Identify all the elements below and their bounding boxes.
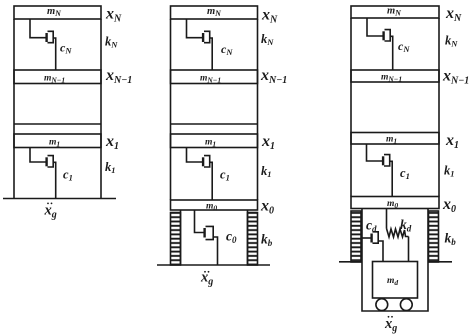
damper c_d (building 3): output rod down to mass m_d <box>378 241 383 262</box>
svg-text:c1: c1 <box>63 168 73 183</box>
svg-text:cN: cN <box>60 41 72 56</box>
damper c_N (building 3): hanger wire <box>367 18 383 36</box>
mass m_N-1 floor bar (building 2) <box>171 70 258 84</box>
svg-text:mN−1: mN−1 <box>200 74 221 85</box>
damper c_1 (building 2): output rod down to base floor <box>210 162 213 200</box>
intermediate floor line (building 2) <box>171 123 258 125</box>
svg-text:x1: x1 <box>105 133 119 152</box>
damper c_1 (building 3): piston <box>382 156 384 165</box>
isolation bearing right k_b (building 3) <box>429 211 439 262</box>
damper c_1 (building 1): output rod down to ground <box>53 162 56 198</box>
spring k_d (building 3): rod down to mass m_d <box>408 237 410 262</box>
svg-text:c1: c1 <box>400 166 410 181</box>
svg-text:m0: m0 <box>206 202 217 213</box>
damper c_N (building 2): output rod down to floor below <box>210 38 213 70</box>
svg-text:c1: c1 <box>220 168 230 183</box>
svg-text:mN−1: mN−1 <box>381 73 402 84</box>
damper c_d (building 3): rod from wall <box>362 237 371 239</box>
damper c_N (building 3): output rod down to floor below <box>390 36 393 70</box>
svg-text:md: md <box>387 276 398 287</box>
svg-text:m0: m0 <box>387 199 398 210</box>
BUILDING1 fixed-base frame <box>3 6 132 221</box>
svg-text:xN: xN <box>261 7 278 26</box>
damper c_N (building 3): piston <box>382 31 384 40</box>
mass m_1 floor bar (building 2) <box>171 134 258 148</box>
isolation bearing right k_b (building 2) <box>248 213 258 266</box>
label x..g ground acceleration (building 2) <box>200 270 213 288</box>
svg-text:kb: kb <box>261 232 273 249</box>
svg-text:mN: mN <box>387 6 402 18</box>
damper c_1 (building 3): hanger wire <box>367 144 383 161</box>
mass m_0 base slab bar (building 3) <box>351 197 439 209</box>
damper c_d (building 3): piston <box>370 234 372 243</box>
isolation bearing left k_b (building 3) <box>351 211 361 262</box>
damper c_N (building 1): output rod down to floor below <box>53 38 56 70</box>
ground line (building 2) <box>157 264 270 266</box>
right wall (building 3) <box>438 18 440 197</box>
BUILDING3 base isolation with tuned mass damper <box>339 5 469 334</box>
svg-text:kN: kN <box>105 35 118 50</box>
ground stub left (building 3) <box>339 261 362 263</box>
svg-text:xg: xg <box>44 203 57 221</box>
svg-text:x1: x1 <box>261 133 275 152</box>
damper c_1 (building 1): cylinder cup <box>48 156 54 167</box>
ground line (building 1) <box>3 198 116 200</box>
damper c_N (building 1): hanger wire <box>30 19 46 38</box>
isolation bearing left k_b (building 2) <box>171 213 181 266</box>
ground stub right (building 3) <box>428 261 452 263</box>
BUILDING2 base-isolated frame <box>157 6 287 288</box>
svg-text:mN: mN <box>207 6 222 18</box>
svg-text:kN: kN <box>445 34 458 49</box>
mass m_1 floor bar (building 3) <box>351 133 439 145</box>
damper c_1 (building 2): hanger wire <box>187 148 203 163</box>
svg-text:mN−1: mN−1 <box>44 74 65 85</box>
svg-text:xN: xN <box>105 6 122 25</box>
damper c_N (building 2): hanger wire <box>187 19 203 38</box>
damper c_N (building 1): piston <box>45 33 47 42</box>
svg-text:m1: m1 <box>49 138 60 149</box>
damper c_1 (building 1): piston <box>45 157 47 166</box>
spring k_d (building 3): hanger wire <box>386 209 388 229</box>
damper c_0 (building 2): hanger wire <box>195 210 204 233</box>
svg-text:xN−1: xN−1 <box>260 67 287 86</box>
TMD wheel right (building 3) <box>400 299 412 311</box>
TMD wheel left (building 3) <box>376 299 388 311</box>
svg-text:xN: xN <box>445 5 462 24</box>
damper c_N (building 3): cylinder cup <box>385 30 391 41</box>
svg-text:m1: m1 <box>386 135 397 146</box>
TMD mass m_d box (building 3) <box>373 262 418 299</box>
left wall (building 2) <box>170 19 172 200</box>
mass m_1 floor bar (building 1) <box>14 134 101 148</box>
svg-text:xN−1: xN−1 <box>105 67 132 86</box>
damper c_1 (building 2): cylinder cup <box>204 156 210 167</box>
inner base wall right (building 2) <box>247 210 249 265</box>
svg-text:mN: mN <box>47 6 62 18</box>
svg-text:k1: k1 <box>105 160 116 175</box>
svg-text:kN: kN <box>261 32 274 47</box>
damper c_1 (building 2): piston <box>202 157 204 166</box>
svg-text:kd: kd <box>400 217 412 234</box>
mass m_N floor bar (building 1) <box>14 6 101 19</box>
right wall (building 1) <box>100 19 102 199</box>
mass m_0 base slab bar (building 2) <box>171 200 258 210</box>
damper c_1 (building 3): output rod down to base floor <box>390 161 393 196</box>
svg-text:xg: xg <box>384 316 397 334</box>
damper c_d (building 3): cylinder cup <box>373 232 379 243</box>
mass m_N-1 floor bar (building 1) <box>14 70 101 84</box>
damper c_1 (building 3): cylinder cup <box>384 155 390 166</box>
svg-text:x0: x0 <box>442 196 456 215</box>
label x..g ground acceleration (building 1) <box>44 203 57 221</box>
svg-text:x1: x1 <box>445 132 459 151</box>
svg-text:xg: xg <box>200 270 213 288</box>
damper c_0 (building 2): output rod down to ground <box>213 237 217 265</box>
mass m_N floor bar (building 2) <box>171 6 258 19</box>
svg-text:k1: k1 <box>261 164 272 179</box>
svg-text:xN−1: xN−1 <box>442 68 469 87</box>
damper c_N (building 2): piston <box>202 33 204 42</box>
mass m_N floor bar (building 3) <box>351 6 439 18</box>
damper c_0 (building 2): cylinder cup <box>206 226 214 239</box>
left wall (building 3) <box>350 18 352 197</box>
damper c_N (building 2): cylinder cup <box>204 31 210 42</box>
svg-text:cN: cN <box>221 42 233 57</box>
svg-text:c0: c0 <box>226 229 237 246</box>
right wall (building 2) <box>257 19 259 200</box>
damper c_1 (building 1): hanger wire <box>30 148 46 163</box>
svg-text:x0: x0 <box>260 198 274 217</box>
left wall (building 1) <box>13 19 15 199</box>
inner base wall left (building 2) <box>180 210 182 265</box>
mass m_N-1 floor bar (building 3) <box>351 70 439 82</box>
label x..g ground acceleration (building 3) <box>384 316 397 334</box>
TMD container walls and floor (building 3) <box>362 209 428 312</box>
svg-text:k1: k1 <box>444 164 455 179</box>
svg-text:cd: cd <box>366 218 377 235</box>
svg-text:m1: m1 <box>205 138 216 149</box>
intermediate floor line (building 1) <box>14 123 101 125</box>
spring k_d (building 3): zigzag coils <box>387 229 409 238</box>
damper c_0 (building 2): piston <box>203 228 205 238</box>
svg-text:kb: kb <box>445 231 457 248</box>
damper c_N (building 1): cylinder cup <box>48 31 54 42</box>
svg-text:cN: cN <box>398 39 410 54</box>
